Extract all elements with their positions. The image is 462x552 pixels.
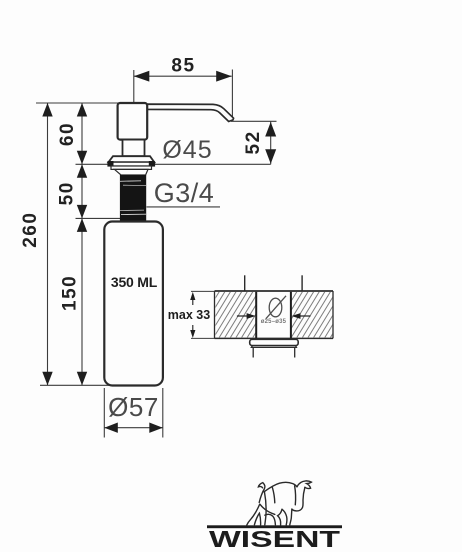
bison horns <box>297 481 311 489</box>
pump spout <box>147 104 234 121</box>
dimension 60 bottom arrow <box>77 151 87 165</box>
countertop bottom edge <box>215 337 334 339</box>
dimension 150 top arrow <box>77 218 87 232</box>
flange rim band <box>108 162 155 166</box>
dimension 85 left extension <box>133 70 135 103</box>
bison back and hump <box>264 482 297 491</box>
bison far hind leg line <box>264 492 266 525</box>
dimension 60 top arrow <box>77 103 87 117</box>
dimension 52 bottom arrow <box>265 149 276 164</box>
svg-text:ø25–ø35: ø25–ø35 <box>261 319 287 325</box>
extension line thread bottom reference <box>76 217 122 219</box>
flange cone <box>108 156 154 162</box>
max 33 upper arrow <box>192 296 194 305</box>
dimension 50 top arrow <box>77 164 87 178</box>
dimension 52 line <box>270 121 272 164</box>
dimension 52 top arrow <box>265 122 276 137</box>
svg-text:G3/4: G3/4 <box>154 178 215 208</box>
bison flank sweep <box>260 504 275 514</box>
label G3/4 leader line <box>147 206 221 208</box>
bison neck line <box>295 486 296 505</box>
dimension 60/50/150 line <box>81 103 83 385</box>
svg-text:150: 150 <box>60 275 81 311</box>
max 33 lower arrow <box>192 325 194 334</box>
svg-text:Ø57: Ø57 <box>108 392 159 422</box>
hole left wall <box>255 292 257 339</box>
dimension 52 extension top (spout outlet) <box>231 120 277 122</box>
bison hind legs <box>247 504 260 525</box>
logo bar <box>207 525 342 528</box>
hatching left block <box>190 291 287 340</box>
hole arrow left <box>237 315 248 317</box>
svg-text:350 ML: 350 ML <box>111 274 158 290</box>
extension line top (head top reference) <box>36 102 119 104</box>
dimension 260 bottom arrow <box>42 372 52 386</box>
dimension Ø57 left extension <box>103 388 105 438</box>
dimension 85 right arrow <box>216 71 232 82</box>
svg-text:50: 50 <box>57 181 78 205</box>
hatching right block <box>262 291 365 340</box>
pump head <box>118 103 148 140</box>
dimension 50 bottom arrow <box>77 205 87 219</box>
dimension 85 left arrow <box>134 71 150 82</box>
hole right wall <box>290 292 292 339</box>
dimension Ø57 right arrow <box>149 423 163 433</box>
bison belly folds <box>278 509 282 525</box>
svg-text:85: 85 <box>171 56 195 77</box>
dimension Ø57 right extension <box>162 388 164 438</box>
nut riser left <box>252 347 254 357</box>
flange rim right cap <box>149 161 155 166</box>
dimension 85 line <box>134 75 232 77</box>
nut riser right <box>294 347 296 357</box>
dimension 85 right extension <box>231 70 233 118</box>
threaded shank <box>120 175 146 221</box>
shank riser left <box>244 275 246 291</box>
hole diameter symbol <box>269 298 282 317</box>
svg-text:52: 52 <box>243 130 264 154</box>
max 33 top extension <box>191 290 215 292</box>
countertop top edge <box>215 290 334 292</box>
dimension Ø57 left arrow <box>104 423 118 433</box>
logo bison <box>247 481 312 525</box>
nut lower lip <box>251 346 296 348</box>
extension line bottle bottom reference <box>40 384 110 386</box>
bison tail <box>258 483 264 503</box>
pump neck <box>123 140 145 157</box>
shank riser right <box>301 275 303 291</box>
dimension 260 top arrow <box>42 103 52 117</box>
extension line flange reference / Ø45 leader <box>76 163 271 165</box>
svg-text:WISENT: WISENT <box>209 526 340 552</box>
bison chest and front leg <box>290 509 292 525</box>
dimension 150 bottom arrow <box>77 372 87 386</box>
bison shoulder line <box>272 488 274 503</box>
locknut taper <box>115 169 149 175</box>
flange rim left cap <box>108 161 114 166</box>
locknut band <box>111 166 152 169</box>
dimension Ø57 line <box>104 427 163 429</box>
svg-text:max 33: max 33 <box>168 308 210 322</box>
bottle <box>104 222 163 386</box>
max 33 bottom extension <box>191 337 215 339</box>
thread highlight lines <box>120 180 141 183</box>
dimension 260 line <box>47 103 49 385</box>
nut under counter <box>250 339 299 345</box>
svg-text:Ø45: Ø45 <box>162 136 212 164</box>
bison face <box>292 487 305 511</box>
svg-text:260: 260 <box>20 212 41 248</box>
countertop left edge <box>214 291 216 338</box>
svg-text:60: 60 <box>57 122 78 146</box>
hole arrow right <box>299 315 311 317</box>
countertop right edge <box>332 291 334 338</box>
